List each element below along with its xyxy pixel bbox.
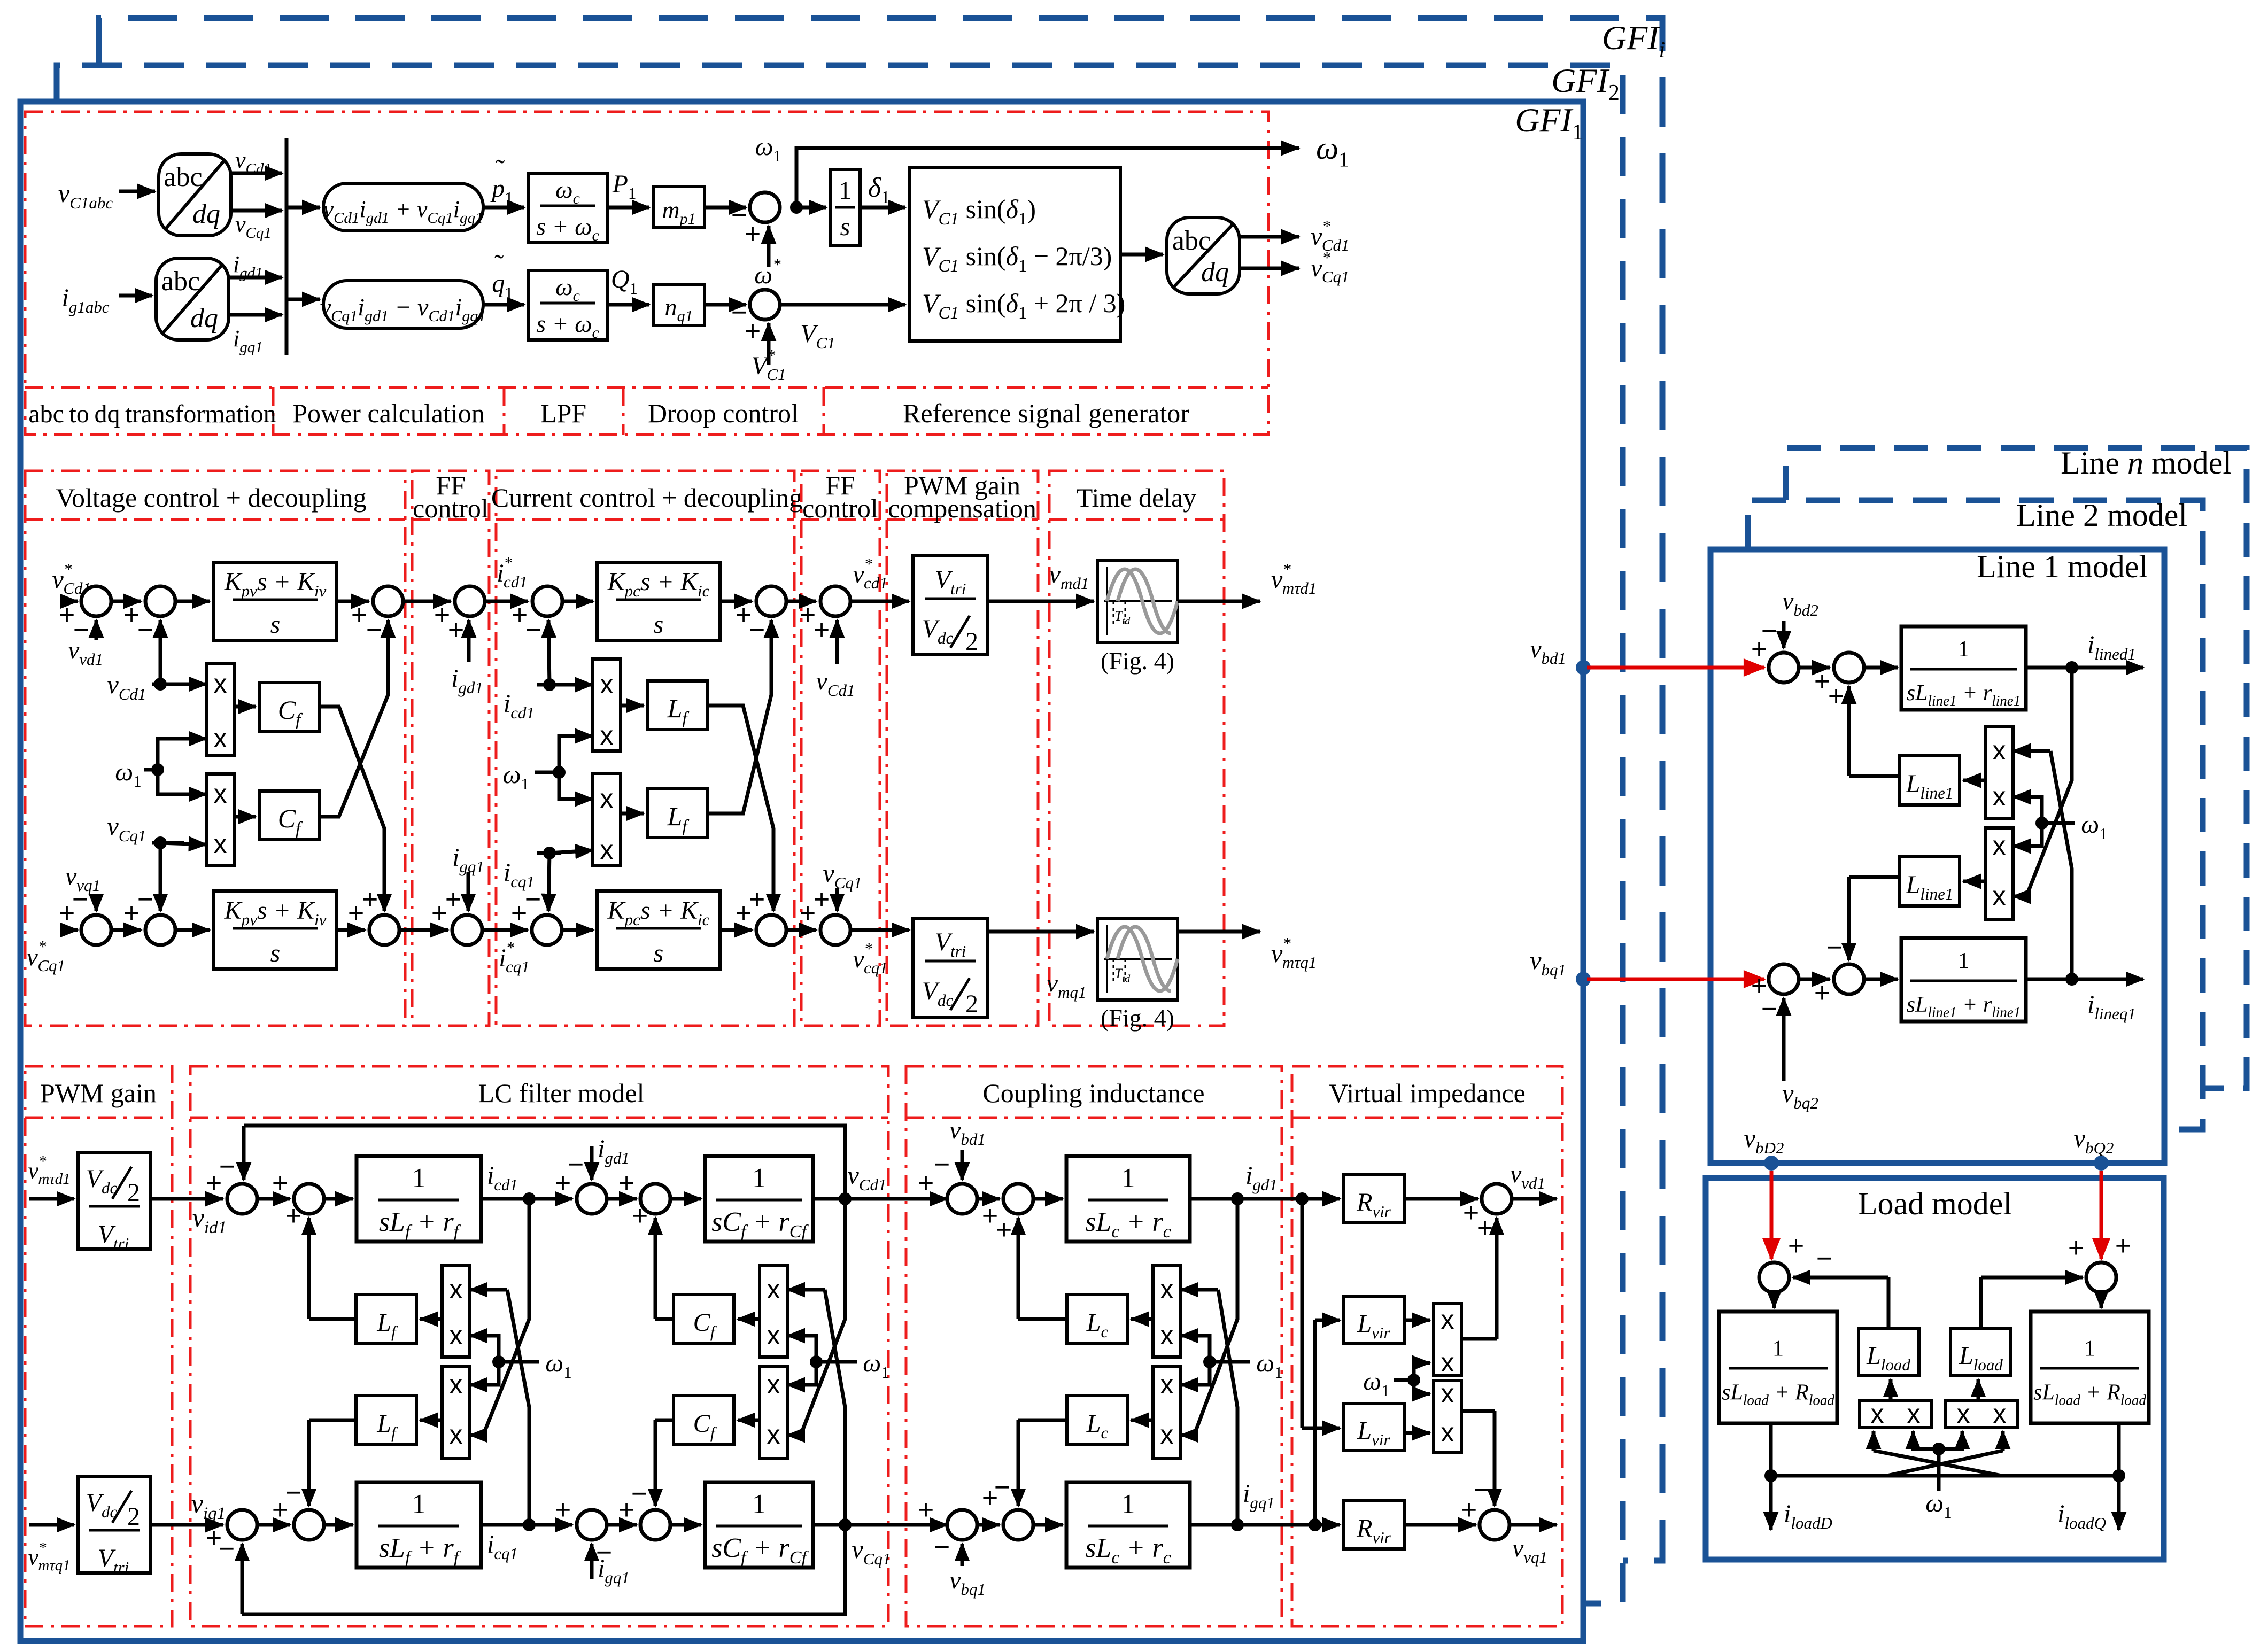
Cf block lower xyxy=(674,1396,734,1445)
svg-text:−: − xyxy=(285,1477,301,1508)
wire L7 to L8 xyxy=(607,1523,637,1527)
svg-text:x: x xyxy=(214,723,227,753)
cross wire Cf lower to V3 xyxy=(320,652,388,817)
wire v*_Cq1 to sum xyxy=(60,928,78,932)
svg-text:compensation: compensation xyxy=(888,493,1036,523)
svg-text:2: 2 xyxy=(127,1502,140,1531)
PWM gain compensation block lower xyxy=(913,918,988,1017)
wire PWM gain q to sum L5 xyxy=(151,1523,223,1527)
wire mult to block upper xyxy=(1963,779,1985,782)
wire CP3 to CP4 xyxy=(977,1523,1000,1527)
PI current upper xyxy=(597,562,720,640)
wire Lload1 fb to LS1 xyxy=(1887,1277,1891,1328)
wire V5 to V6 xyxy=(111,928,141,932)
cross trunk q xyxy=(1218,1290,1237,1525)
svg-text:x: x xyxy=(767,1420,780,1450)
wire v_Cd1 to multiplier xyxy=(152,683,206,686)
wire L2 to TF f1 xyxy=(324,1197,353,1201)
svg-text:x: x xyxy=(1441,1305,1454,1335)
svg-text:GFIi: GFIi xyxy=(1602,19,1665,63)
Cf block lower xyxy=(259,791,320,840)
node i_gq1 vi xyxy=(1309,1518,1321,1531)
Lline1 block upper xyxy=(1899,756,1960,805)
svg-text:s + ωc: s + ωc xyxy=(536,310,599,342)
GFI_i outer dashed box xyxy=(99,18,1662,1561)
svg-text:x: x xyxy=(600,669,614,699)
multiplier box upper (Lc) xyxy=(1153,1265,1181,1357)
svg-text:1: 1 xyxy=(752,1489,766,1520)
svg-text:s: s xyxy=(270,610,281,639)
PWM gain block q xyxy=(78,1477,151,1573)
svg-text:+: + xyxy=(749,884,765,915)
cross wire Lf lower to C2 xyxy=(708,652,771,813)
cross diag load left xyxy=(1874,1451,2002,1476)
node iloadD xyxy=(1764,1469,1777,1482)
wire mult to block lower xyxy=(420,1419,442,1422)
PI voltage lower xyxy=(214,891,337,969)
svg-text:−: − xyxy=(1826,932,1843,963)
PWM gain block d xyxy=(78,1153,151,1249)
sum C4 xyxy=(532,915,562,945)
Lline1 block lower xyxy=(1899,857,1960,906)
wire refgen to abc-dq3 xyxy=(1120,253,1163,257)
wire L8 to TF c2 xyxy=(670,1523,701,1527)
svg-text:s: s xyxy=(840,213,850,241)
PWM gain compensation block upper xyxy=(913,556,988,655)
wire L5 to L6 xyxy=(257,1523,290,1527)
LPF block 2 xyxy=(528,270,607,340)
wire v_Cq1 down into C7 xyxy=(835,888,839,911)
omega1 node xyxy=(492,1355,505,1368)
sum CP1 xyxy=(947,1184,977,1214)
wire L3 to L4 xyxy=(607,1197,637,1201)
svg-text:1: 1 xyxy=(1121,1163,1135,1193)
svg-text:x: x xyxy=(450,1320,463,1350)
droop gain n_q1 xyxy=(653,284,705,325)
Cf block upper xyxy=(674,1295,734,1344)
wire mult to Lf lower xyxy=(621,812,644,816)
GFI_1 solid box xyxy=(20,102,1583,1641)
red wire v_bq1 to S3 xyxy=(1587,978,1764,981)
sum V4 (FF) xyxy=(455,586,485,616)
svg-text:+: + xyxy=(814,884,830,915)
svg-text:LPF: LPF xyxy=(540,398,586,428)
wire Rvir2 to sum VQ1 xyxy=(1404,1523,1476,1527)
sum CP2 xyxy=(1003,1184,1033,1214)
svg-text:−: − xyxy=(525,884,541,915)
L_vir block upper xyxy=(1344,1297,1404,1344)
svg-text:1: 1 xyxy=(1958,637,1969,662)
wire v_C1abc to abc-dq1 xyxy=(119,190,155,193)
wire v_Cq1 out xyxy=(231,209,282,213)
sum VD1 xyxy=(1482,1184,1512,1214)
svg-text:˜: ˜ xyxy=(496,154,505,185)
wire p to LPF1 xyxy=(483,206,524,210)
omega1 wire xyxy=(1210,1360,1250,1364)
sum C2 xyxy=(756,586,786,616)
svg-text:−: − xyxy=(219,1151,235,1182)
svg-text:s: s xyxy=(654,610,664,639)
wire v_vq1 down xyxy=(95,894,98,911)
Virtual impedance red box xyxy=(1292,1066,1562,1626)
wire CP1 to CP2 xyxy=(977,1197,1000,1201)
svg-text:Virtual impedance: Virtual impedance xyxy=(1329,1078,1526,1108)
Coupling inductance red box xyxy=(906,1066,1282,1626)
sum V2 xyxy=(145,586,175,616)
svg-text:Kpvs + Kiv: Kpvs + Kiv xyxy=(224,896,327,929)
svg-text:Reference signal generator: Reference signal generator xyxy=(903,398,1189,428)
svg-text:x: x xyxy=(214,669,227,699)
svg-text:+: + xyxy=(285,1200,301,1231)
wire TF c2 to coupling q xyxy=(813,1523,947,1527)
wire i_gq1 out xyxy=(229,313,282,317)
wire V3 to V4 xyxy=(403,600,451,603)
svg-text:1: 1 xyxy=(2084,1337,2095,1361)
Cf block upper xyxy=(259,683,320,731)
omega wire load xyxy=(1937,1449,1941,1491)
current control red box xyxy=(496,471,794,1026)
wire PWM gain d to sum L1 xyxy=(151,1197,223,1201)
wire v*_Cd1 to sum xyxy=(63,600,78,603)
wire LPF2 to n_q1 xyxy=(607,303,649,307)
svg-text:−: − xyxy=(994,1472,1010,1503)
wire delay1 out xyxy=(1178,600,1260,603)
TF 1/(sLc+rc) d xyxy=(1066,1156,1190,1242)
svg-text:x: x xyxy=(767,1274,780,1304)
svg-text:Power calculation: Power calculation xyxy=(292,398,485,428)
wire mult to block lower xyxy=(738,1419,760,1422)
wire Lline1 upper out to S2 xyxy=(1849,774,1901,778)
PWM gain red box xyxy=(25,1066,172,1626)
svg-text:x: x xyxy=(1907,1399,1921,1429)
wire TF Lc2 out to virtual impedance q xyxy=(1190,1523,1340,1527)
sum LS2 xyxy=(2086,1262,2116,1292)
wire v_vd1 out xyxy=(1512,1197,1557,1201)
omega1 wire xyxy=(499,1360,539,1364)
sum S1 xyxy=(1769,653,1799,683)
sum V6 xyxy=(145,915,175,945)
node v_bd1 on GFI border xyxy=(1576,660,1591,675)
cross diag load right xyxy=(1887,1451,2003,1476)
L_load block left xyxy=(1859,1328,1919,1376)
svg-text:−: − xyxy=(568,1149,584,1180)
svg-text:−: − xyxy=(219,1533,235,1564)
svg-text:+: + xyxy=(351,600,367,631)
omega wire vi xyxy=(1394,1378,1414,1382)
wire bus to power block p xyxy=(287,206,320,210)
svg-text:x: x xyxy=(1441,1378,1454,1408)
svg-text:(Fig. 4): (Fig. 4) xyxy=(1101,1004,1174,1032)
Lf block upper xyxy=(356,1295,416,1344)
sum L5 xyxy=(227,1510,257,1540)
node iloadQ xyxy=(2112,1469,2125,1482)
omega1 node xyxy=(2035,817,2048,830)
wire S1 to S2 xyxy=(1799,666,1830,670)
sum S4 xyxy=(1834,964,1864,994)
svg-text:+: + xyxy=(632,1200,648,1231)
svg-text:x: x xyxy=(1160,1320,1174,1350)
svg-text:x: x xyxy=(1160,1420,1174,1450)
sum C1 xyxy=(532,586,562,616)
wire mult to block upper xyxy=(738,1317,760,1321)
multiplier box lower (current) xyxy=(593,773,621,865)
svg-text:Kpcs + Kic: Kpcs + Kic xyxy=(607,896,710,929)
wire delay2 out xyxy=(1178,930,1260,934)
wire v_bq1 up into CP3 xyxy=(961,1544,964,1566)
wire into PWM gain q xyxy=(29,1523,74,1527)
sum C3 xyxy=(820,586,850,616)
multiplier box upper (Lline1) xyxy=(1985,726,2013,818)
wire PIc1 to C2 xyxy=(720,600,752,603)
svg-text:Load model: Load model xyxy=(1858,1186,2012,1221)
Lc block lower xyxy=(1067,1396,1127,1445)
wire C4 to PIc2 xyxy=(562,928,593,932)
top section label row line xyxy=(25,386,1268,389)
wire V2 to PI xyxy=(175,600,210,603)
wire TF c1 to coupling xyxy=(813,1197,947,1201)
wire mult right to Lload2 xyxy=(1977,1379,1980,1401)
svg-text:−: − xyxy=(934,1532,950,1563)
multiplier box upper (current) xyxy=(593,659,621,751)
svg-text:1: 1 xyxy=(752,1163,766,1193)
sum CP3 xyxy=(947,1510,977,1540)
sum V3 xyxy=(373,586,403,616)
wire i_gq1 down into V8 xyxy=(467,872,470,911)
wire TF line1 out d xyxy=(2026,666,2143,670)
svg-text:−: − xyxy=(366,615,382,646)
svg-text:˜: ˜ xyxy=(494,250,504,280)
node i_gd1 coupling xyxy=(1231,1192,1244,1205)
abc-dq block 2 (current) xyxy=(156,258,229,340)
node v_bD2 xyxy=(1764,1156,1779,1171)
sum V7 xyxy=(369,915,399,945)
svg-text:(Fig. 4): (Fig. 4) xyxy=(1101,647,1174,675)
L_load block right xyxy=(1950,1328,2011,1376)
R_vir block d xyxy=(1344,1175,1404,1223)
svg-text:+: + xyxy=(2115,1230,2131,1261)
red wire v_bQ2 down xyxy=(2100,1171,2103,1259)
wire V4 to C1 xyxy=(485,600,528,603)
wire CP2 to TF Lc1 xyxy=(1033,1197,1063,1201)
svg-text:−: − xyxy=(934,1149,950,1180)
wire L6 to TF f2 xyxy=(324,1523,353,1527)
node i_lineq1 xyxy=(2065,973,2078,986)
svg-text:+: + xyxy=(618,1168,634,1199)
FF control red box 1 xyxy=(412,471,489,1026)
cross trunk d xyxy=(1194,1199,1237,1435)
wire omega* into sum xyxy=(767,226,771,267)
node v_Cd1 xyxy=(839,1192,852,1205)
svg-text:Kpvs + Kiv: Kpvs + Kiv xyxy=(224,568,327,600)
wire mult to Lf upper xyxy=(621,704,644,708)
PI current lower xyxy=(597,891,720,969)
TF 1/(sLline1+rline1) d xyxy=(1901,626,2026,710)
wire C7 out to PWM comp lower xyxy=(850,928,909,932)
sum C6 xyxy=(756,915,786,945)
node after sum omega xyxy=(790,201,803,214)
multiplier box upper (Lf) xyxy=(442,1265,470,1357)
wire LS1 to TF load1 xyxy=(1772,1292,1776,1308)
sum V8 (FF) xyxy=(452,915,482,945)
wire i_gd1 into L3 xyxy=(590,1146,594,1180)
wire i_cq1 down to C4 xyxy=(548,853,549,911)
svg-text:Voltage control + decoupling: Voltage control + decoupling xyxy=(56,483,366,513)
sum L6 xyxy=(294,1510,324,1540)
sum L8 xyxy=(640,1510,670,1540)
wire v_Cq1 down to V6 xyxy=(159,843,162,911)
svg-text:2: 2 xyxy=(965,990,978,1018)
wire PIc2 to C6 xyxy=(720,928,752,932)
svg-text:−: − xyxy=(525,615,541,646)
omega node load xyxy=(1932,1443,1945,1455)
svg-text:abc: abc xyxy=(161,266,200,297)
time delay block lower xyxy=(1097,918,1178,1000)
svg-text:−: − xyxy=(1761,616,1777,647)
LPF block 1 xyxy=(528,173,607,243)
vi multiplier upper xyxy=(1434,1304,1461,1375)
wire L4 to TF c1 xyxy=(670,1197,701,1201)
TF 1/(sCf+rCf) xyxy=(705,1156,813,1242)
PI voltage upper xyxy=(214,562,337,640)
svg-text:Coupling inductance: Coupling inductance xyxy=(982,1078,1204,1108)
wire V6 to PI2 xyxy=(175,928,210,932)
sum S3 xyxy=(1769,964,1799,994)
wire omega1 to multipliers xyxy=(144,768,158,772)
time delay red box xyxy=(1049,471,1224,1026)
svg-text:+: + xyxy=(272,1168,288,1199)
wire v_Cd1 up to V2 xyxy=(159,620,162,684)
svg-text:x: x xyxy=(1993,881,2006,911)
svg-text:+: + xyxy=(918,1494,934,1525)
svg-text:x: x xyxy=(1993,831,2006,861)
wire PI2 to V7 xyxy=(337,928,365,932)
svg-text:1: 1 xyxy=(1772,1337,1784,1361)
wire i_cd1 to multiplier xyxy=(537,683,593,687)
wire Lc upper out to CP2 xyxy=(1018,1317,1067,1321)
cross trunk q xyxy=(825,1290,845,1525)
svg-text:x: x xyxy=(600,784,614,813)
wire i_gd1 out xyxy=(229,276,282,280)
svg-text:x: x xyxy=(450,1274,463,1304)
svg-text:−: − xyxy=(137,884,153,915)
wire i_g1abc to abc-dq2 xyxy=(119,294,152,298)
TF 1/(sLload+Rload) Q xyxy=(2031,1312,2149,1423)
wire V*_C1 into sum xyxy=(767,323,771,365)
wire TF load2 down xyxy=(2117,1423,2121,1518)
feedback wire top v_Cd1 to L1 xyxy=(244,1126,845,1199)
wire V8 to C4 xyxy=(482,928,528,932)
wire mult left to Lload1 xyxy=(1889,1379,1893,1401)
power calc block p xyxy=(323,183,483,231)
svg-text:1: 1 xyxy=(412,1163,426,1193)
node v_Cq1 xyxy=(839,1518,852,1531)
time delay block upper xyxy=(1097,561,1178,642)
TF 1/(sLline1+rline1) q xyxy=(1901,938,2026,1021)
wire Lline1 lower out to S4 xyxy=(1849,875,1901,879)
sum V5 xyxy=(81,915,111,945)
wire TF f1 to sum L3 xyxy=(481,1197,572,1201)
wire L1 to L2 xyxy=(257,1197,290,1201)
TF 1/(sCf+rCf) q xyxy=(705,1482,813,1568)
svg-text:x: x xyxy=(1993,735,2006,765)
wire mult upper to VD1 xyxy=(1461,1337,1497,1341)
wire mult to block lower xyxy=(1963,880,1985,883)
omega1 node xyxy=(1203,1355,1216,1368)
wire C1 to PIc1 xyxy=(562,600,593,603)
omega1 wire xyxy=(816,1360,857,1364)
cross wire Cf upper to V7 xyxy=(320,707,384,903)
svg-text:1: 1 xyxy=(1958,949,1969,973)
wire igq1 to Lvir1 xyxy=(1313,1320,1317,1525)
wire i_cq1 to multiplier xyxy=(537,851,561,855)
TF 1/(sLf+rf) d xyxy=(357,1156,481,1242)
svg-text:LC filter model: LC filter model xyxy=(478,1078,644,1108)
Lf block upper (current) xyxy=(647,681,708,730)
Lc block upper xyxy=(1067,1295,1127,1344)
svg-text:x: x xyxy=(1993,1399,2007,1429)
svg-text:x: x xyxy=(450,1420,463,1450)
wire S3 to S4 xyxy=(1799,978,1830,981)
multiplier box upper (Cf) xyxy=(760,1265,787,1357)
wire Lf upper out to L2 xyxy=(309,1317,356,1321)
svg-text:x: x xyxy=(214,779,227,809)
Line 1 model solid box xyxy=(1710,549,2164,1163)
svg-text:dq: dq xyxy=(190,303,218,334)
wire Cf lower out to L8 xyxy=(655,1419,674,1422)
TF 1/(sLload+Rload) D xyxy=(1719,1312,1837,1423)
sum V1 xyxy=(81,586,111,616)
svg-text:control: control xyxy=(802,493,878,523)
vi multiplier lower xyxy=(1434,1381,1461,1452)
svg-text:x: x xyxy=(600,720,614,750)
node i_cq1 xyxy=(523,1518,536,1531)
sum L3 xyxy=(577,1184,607,1214)
sum L2 xyxy=(294,1184,324,1214)
wire v_bd2 into S1 xyxy=(1782,621,1786,648)
svg-text:abc: abc xyxy=(164,162,202,192)
svg-text:Droop control: Droop control xyxy=(648,398,799,428)
svg-text:control: control xyxy=(413,493,489,523)
svg-text:−: − xyxy=(1761,994,1777,1025)
FF control red box 2 xyxy=(801,471,880,1026)
cross trunk d xyxy=(801,1199,845,1435)
svg-text:Line 2 model: Line 2 model xyxy=(2016,498,2187,533)
svg-text:1: 1 xyxy=(412,1489,426,1520)
cross wire Lf upper to C6 xyxy=(708,706,773,903)
wire Rvir1 to sum VD1 xyxy=(1404,1197,1478,1201)
svg-text:Time delay: Time delay xyxy=(1077,483,1197,513)
sum L7 xyxy=(577,1510,607,1540)
node i_gq1 coupling xyxy=(1231,1518,1244,1531)
wire mult to block upper xyxy=(420,1317,442,1321)
svg-text:+: + xyxy=(59,600,75,631)
wire v*_Cd1 out xyxy=(1240,235,1299,239)
droop gain m_p1 xyxy=(653,187,705,228)
svg-text:+: + xyxy=(918,1168,934,1199)
sum CP4 xyxy=(1003,1510,1033,1540)
svg-text:x: x xyxy=(600,835,614,865)
wire mult lower to VQ1 xyxy=(1461,1409,1495,1413)
R_vir block q xyxy=(1344,1501,1404,1549)
wire Lvir2 to mult xyxy=(1404,1431,1430,1435)
svg-text:x: x xyxy=(450,1369,463,1399)
omega1 wire xyxy=(2042,821,2075,825)
svg-text:x: x xyxy=(1441,1347,1454,1377)
wire igd1 to Lvir2 xyxy=(1301,1199,1304,1428)
sum L4 xyxy=(640,1184,670,1214)
wire C6 to C7 xyxy=(786,928,816,932)
sum VQ1 xyxy=(1480,1510,1510,1540)
